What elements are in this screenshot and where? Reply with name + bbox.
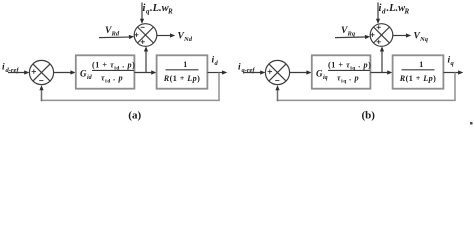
svg-text:G: G xyxy=(316,69,323,79)
svg-text:R(1 + Lp): R(1 + Lp) xyxy=(399,74,437,83)
wire i_d-ref to summing junction S1a xyxy=(8,72,26,74)
node i_q label xyxy=(448,56,455,68)
node V_Nd label xyxy=(178,32,193,44)
minus sign S1b bottom xyxy=(275,80,279,82)
wire plant output i_d xyxy=(207,72,223,74)
svg-text:(a): (a) xyxy=(128,110,141,122)
block G_id PI controller xyxy=(76,55,135,88)
plus sign S2a bottom xyxy=(141,40,145,44)
node i_d label xyxy=(212,56,219,68)
wire feedback bottom (a) xyxy=(41,99,220,101)
fraction bar plant (b) xyxy=(402,69,435,71)
svg-text:R(1 + Lp): R(1 + Lp) xyxy=(163,74,201,83)
svg-text:(b): (b) xyxy=(362,110,376,122)
node i_q-ref input label xyxy=(238,63,255,75)
svg-text:Nd: Nd xyxy=(183,36,193,43)
summing junction S2b xyxy=(370,24,393,47)
svg-text:q: q xyxy=(451,60,455,67)
node V_Rq label xyxy=(341,26,356,38)
wire feedback right riser (a) xyxy=(218,73,220,101)
node junction tap to S2b xyxy=(381,51,383,73)
wire plant output i_q xyxy=(443,72,459,74)
block G_iq PI controller xyxy=(312,55,371,88)
svg-text:Nq: Nq xyxy=(419,36,429,43)
wire S2a to V_Nd xyxy=(157,35,171,37)
plus sign S1b left xyxy=(268,69,272,73)
summing junction S1b xyxy=(265,60,289,84)
plus sign S2b bottom xyxy=(377,40,381,44)
minus sign S2a top xyxy=(141,26,145,28)
svg-text:iq: iq xyxy=(323,75,328,81)
plus sign S1a left xyxy=(32,69,36,73)
node V_Nq label xyxy=(414,32,429,44)
plus sign S2a left xyxy=(134,33,138,37)
wire i_q-ref to summing junction S1b xyxy=(244,72,262,74)
svg-text:d: d xyxy=(382,8,386,16)
wire feedback bottom (b) xyxy=(277,99,456,101)
node scan speck bottom right xyxy=(470,122,473,125)
wire i_q.L.w_R into S2a top xyxy=(141,3,143,21)
node junction tap to S2a xyxy=(145,51,147,73)
svg-text:.L.w: .L.w xyxy=(150,3,170,14)
svg-text:τid . p: τid . p xyxy=(101,74,123,85)
summing junction S2a xyxy=(134,24,157,47)
wire S1a to block G_id xyxy=(54,72,72,74)
svg-text:id: id xyxy=(87,75,93,81)
svg-text:G: G xyxy=(80,69,87,79)
wire block G_iq to block plant (b) xyxy=(370,72,388,74)
svg-text:d: d xyxy=(215,60,219,67)
node i_q.L.w_R label xyxy=(143,3,174,16)
svg-text:1: 1 xyxy=(419,60,423,69)
node i_d-ref input label xyxy=(2,63,19,75)
fraction bar block G_id xyxy=(92,69,134,71)
summing junction S1a xyxy=(29,60,53,84)
wire V_Rd to S2a xyxy=(99,36,130,39)
wire S1b to block G_iq xyxy=(290,72,308,74)
svg-text:Rq: Rq xyxy=(347,31,356,38)
node V_Rd label xyxy=(105,26,120,38)
block plant 1/R(1+Lp) (b) xyxy=(393,55,444,88)
minus sign S1a bottom xyxy=(39,80,43,82)
fraction bar block G_iq xyxy=(328,69,370,71)
plus sign S2b left xyxy=(370,33,374,37)
wire feedback left riser into S1b xyxy=(277,90,279,102)
svg-text:R: R xyxy=(404,8,410,16)
wire S2b to V_Nq xyxy=(393,35,407,37)
block plant 1/R(1+Lp) (a) xyxy=(157,55,208,88)
svg-text:R: R xyxy=(167,8,173,16)
wire V_Rq to S2b xyxy=(335,36,366,39)
wire feedback left riser into S1a xyxy=(41,90,43,102)
fraction bar plant (a) xyxy=(166,69,199,71)
wire i_d.L.w_R into S2b top xyxy=(377,3,379,21)
svg-text:Rd: Rd xyxy=(111,31,120,38)
svg-text:τiq . p: τiq . p xyxy=(337,74,359,85)
node i_d.L.w_R label xyxy=(379,3,410,16)
wire block G_id to block plant (a) xyxy=(134,72,152,74)
svg-text:1: 1 xyxy=(183,60,187,69)
wire feedback right riser (b) xyxy=(454,73,456,101)
plus sign S2b top xyxy=(377,25,381,29)
svg-text:.L.w: .L.w xyxy=(387,3,407,14)
